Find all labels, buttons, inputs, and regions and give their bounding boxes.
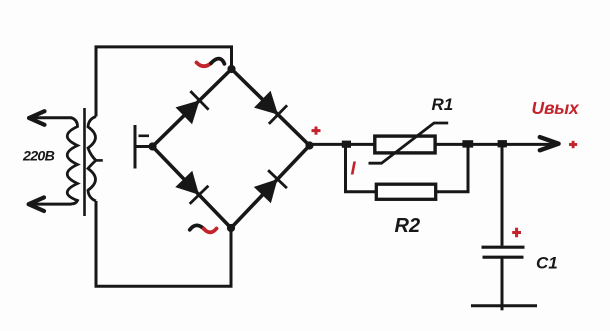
- diode VD4 (bottom-right arm): [254, 170, 287, 203]
- svg-text:R2: R2: [395, 215, 421, 237]
- node: bridge top vertex: [227, 65, 235, 73]
- wire: C1 top lead: [501, 144, 504, 245]
- svg-text:Uвых: Uвых: [532, 98, 581, 118]
- arrowhead: 220V bottom lead: [29, 197, 44, 211]
- wire: 220V top lead: [33, 116, 72, 119]
- node: junction at C1 tap: [498, 140, 507, 147]
- wire: bottom wire to bridge bottom vertex: [95, 228, 232, 286]
- wire: top wire from secondary to bridge top vertex: [96, 47, 232, 69]
- diode VD1 (left-top arm): [176, 91, 209, 124]
- AC tilde top (red/black): [197, 63, 212, 67]
- wire: bridge edge top-right: [232, 69, 310, 146]
- plus sign at output arrow: [569, 141, 577, 148]
- transformer T1 secondary winding: [88, 117, 96, 202]
- wire: main output rail: [310, 143, 553, 146]
- diode VD3 (left-bottom arm): [175, 171, 208, 204]
- node: bridge bottom vertex: [227, 224, 235, 232]
- transformer T1 primary winding: [67, 118, 77, 204]
- svg-text:I: I: [351, 157, 357, 178]
- node: junction right of R1: [462, 140, 473, 147]
- transformer T1 secondary center tap tick: [96, 159, 103, 162]
- node: bridge right vertex: [305, 141, 313, 149]
- wire: bridge edge bottom-right: [231, 146, 310, 229]
- node: bridge left vertex: [148, 142, 156, 150]
- wire: left drop of R2 branch: [346, 144, 377, 191]
- resistor R2 body: [376, 184, 435, 199]
- thermistor diagonal stroke: [369, 123, 449, 163]
- arrowhead: 220V top lead: [29, 111, 45, 125]
- node: junction left of R1: [342, 141, 351, 148]
- wire: bridge edge left-bottom: [153, 147, 232, 229]
- wire: left vertical upper segment: [95, 46, 98, 117]
- svg-text:220В: 220В: [22, 148, 55, 164]
- transformer T1 core: [83, 108, 86, 216]
- plus sign at C1: [512, 228, 521, 238]
- AC tilde bottom (black/red): [190, 225, 204, 229]
- plus sign at bridge output: [312, 127, 321, 135]
- wire: 220V bottom lead: [33, 203, 72, 206]
- minus terminal bar: [134, 125, 137, 169]
- minus sign: [139, 135, 150, 138]
- capacitor C1 bottom plate: [483, 256, 524, 259]
- wire: right rise of R2 branch: [436, 144, 468, 191]
- wire: left vertical lower segment: [95, 201, 98, 287]
- diode VD2 (top-right arm): [254, 91, 287, 124]
- wire: C1 bottom lead: [501, 257, 504, 310]
- arrowhead: output: [540, 137, 559, 150]
- resistor R1 body (thermistor): [375, 136, 435, 153]
- svg-text:C1: C1: [536, 253, 558, 272]
- capacitor C1 top plate: [482, 246, 525, 249]
- wire: minus terminal to left vertex: [135, 145, 153, 148]
- svg-text:R1: R1: [432, 95, 454, 114]
- wire: bridge edge left-top: [153, 69, 232, 147]
- ground: [471, 304, 537, 307]
